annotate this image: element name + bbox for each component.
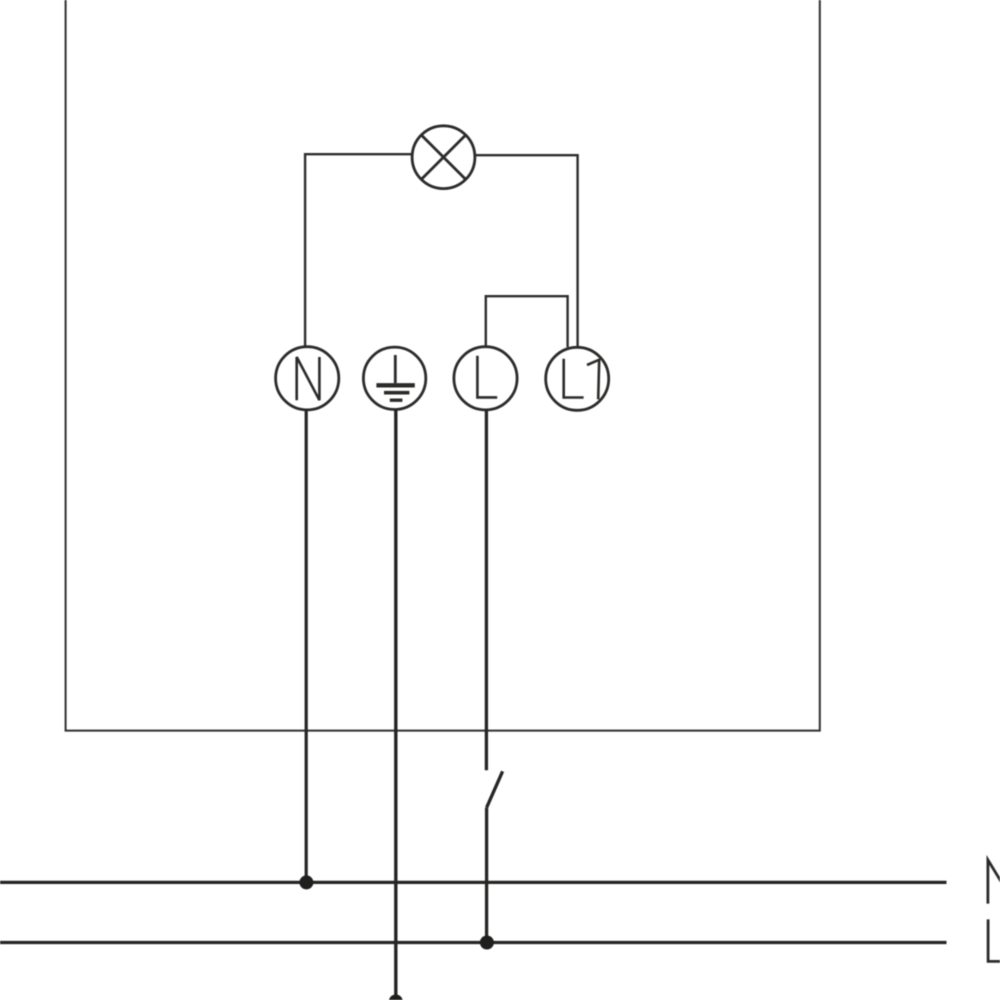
bus line N <box>0 881 947 884</box>
device enclosure outline <box>66 0 820 731</box>
junction dot PE bottom <box>389 995 403 1000</box>
lamp E1 <box>412 126 475 189</box>
wire terminal N down to bus N <box>305 410 308 881</box>
net label N <box>988 860 1000 904</box>
junction dot L bus <box>480 936 494 950</box>
net label L <box>988 919 1000 961</box>
wire terminal PE down to bottom <box>394 410 397 997</box>
wire lamp to terminal L1 <box>475 155 578 347</box>
bus line L <box>0 941 947 944</box>
junction dot N bus <box>299 875 313 889</box>
terminal L <box>454 347 517 410</box>
wire bridge L to L1 <box>486 296 568 347</box>
terminal L1 <box>546 347 609 410</box>
terminal N <box>276 347 339 410</box>
wire lamp to terminal N <box>305 154 412 346</box>
switch S1 blade <box>487 771 503 807</box>
wire switch down to bus L <box>485 808 488 943</box>
wire terminal L down to switch <box>485 410 488 770</box>
terminal PE ground <box>363 347 425 409</box>
